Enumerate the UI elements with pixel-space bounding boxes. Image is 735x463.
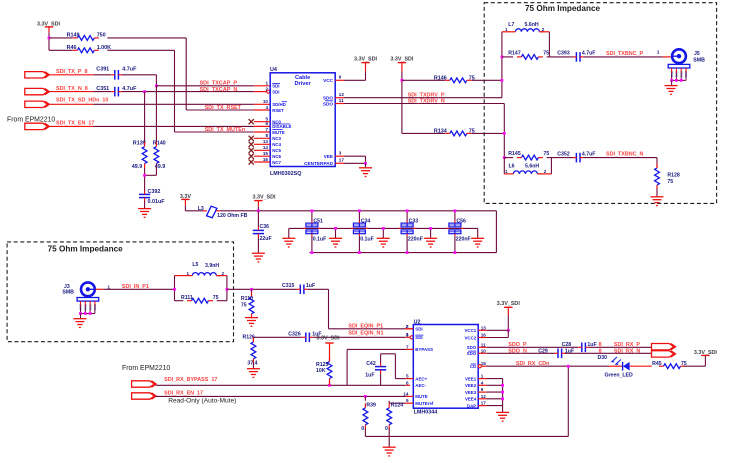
svg-text:SMB: SMB <box>693 57 705 63</box>
svg-text:4.7uF: 4.7uF <box>122 66 137 72</box>
svg-text:GND: GND <box>679 71 683 77</box>
svg-text:0: 0 <box>361 426 364 432</box>
svg-text:GND: GND <box>93 304 97 310</box>
svg-text:14: 14 <box>403 391 409 396</box>
svg-text:SDI_TX_MUTEn: SDI_TX_MUTEn <box>205 127 245 133</box>
svg-text:C315: C315 <box>282 283 295 289</box>
svg-text:9: 9 <box>339 74 342 79</box>
svg-text:LMH0344: LMH0344 <box>414 409 438 415</box>
svg-text:14: 14 <box>263 145 269 150</box>
svg-text:Green_LED: Green_LED <box>605 372 634 378</box>
svg-text:U2: U2 <box>414 319 421 325</box>
svg-text:VEE4: VEE4 <box>465 397 477 402</box>
svg-text:10: 10 <box>481 348 487 353</box>
svg-text:11: 11 <box>481 342 486 347</box>
svg-text:C56: C56 <box>456 219 466 225</box>
svg-text:3.3V_SDI: 3.3V_SDI <box>316 336 340 342</box>
svg-text:AEC-: AEC- <box>415 383 426 388</box>
svg-text:SDI_RX_N: SDI_RX_N <box>614 348 640 354</box>
svg-text:SDI_TX_P 8: SDI_TX_P 8 <box>56 69 87 75</box>
svg-text:BYPASS: BYPASS <box>415 347 433 352</box>
svg-text:8: 8 <box>599 348 602 354</box>
svg-text:3.3V_SDI: 3.3V_SDI <box>390 56 414 62</box>
svg-text:R39: R39 <box>366 402 376 408</box>
svg-text:SDI_EQIN_P1: SDI_EQIN_P1 <box>348 324 383 330</box>
svg-text:VEE2: VEE2 <box>465 383 477 388</box>
svg-text:12: 12 <box>481 394 487 399</box>
svg-text:0.1uF: 0.1uF <box>313 237 327 243</box>
svg-text:U4: U4 <box>270 67 277 73</box>
svg-text:R145: R145 <box>508 151 521 157</box>
svg-text:2: 2 <box>222 271 225 276</box>
svg-text:GND: GND <box>675 71 679 77</box>
svg-text:49.9: 49.9 <box>132 164 143 170</box>
svg-text:R46: R46 <box>67 45 77 51</box>
svg-text:RSET: RSET <box>272 108 284 113</box>
svg-text:R134: R134 <box>434 128 447 134</box>
svg-text:17: 17 <box>339 157 345 162</box>
svg-text:C36: C36 <box>260 224 270 230</box>
svg-text:7: 7 <box>265 127 268 132</box>
svg-text:1uF: 1uF <box>365 373 374 379</box>
svg-text:SDI_RX_EN 17: SDI_RX_EN 17 <box>164 390 203 396</box>
svg-text:8: 8 <box>265 133 268 138</box>
svg-text:2: 2 <box>542 27 545 32</box>
svg-text:13: 13 <box>481 325 487 330</box>
svg-text:16: 16 <box>481 333 487 338</box>
svg-text:MUTE: MUTE <box>272 130 285 135</box>
svg-text:VEE: VEE <box>324 154 333 159</box>
svg-text:D30: D30 <box>598 355 608 361</box>
svg-text:SDI: SDI <box>415 335 422 340</box>
svg-text:10K: 10K <box>316 368 326 374</box>
svg-text:4.7uF: 4.7uF <box>582 51 596 57</box>
svg-text:3.9nH: 3.9nH <box>205 263 219 269</box>
svg-text:5: 5 <box>406 374 409 379</box>
svg-text:SDI_RX_P: SDI_RX_P <box>614 342 640 348</box>
svg-text:120 Ohm FB: 120 Ohm FB <box>217 213 248 219</box>
svg-text:3.3V_SDI: 3.3V_SDI <box>354 56 378 62</box>
svg-text:VEE1: VEE1 <box>465 376 477 381</box>
svg-text:R147: R147 <box>508 51 521 57</box>
svg-text:SDI_TXCAP_N: SDI_TXCAP_N <box>200 87 238 93</box>
svg-text:CD: CD <box>470 364 476 369</box>
svg-text:SDI_TX_SD_HDn 10: SDI_TX_SD_HDn 10 <box>56 98 108 104</box>
svg-text:MUTE: MUTE <box>415 394 428 399</box>
svg-text:0: 0 <box>385 426 388 432</box>
svg-text:R110: R110 <box>241 296 253 302</box>
svg-text:NC7: NC7 <box>272 160 281 165</box>
svg-text:LMH0302SQ: LMH0302SQ <box>270 171 301 177</box>
svg-text:NC4: NC4 <box>272 142 281 147</box>
svg-text:1: 1 <box>265 81 268 86</box>
svg-text:22uF: 22uF <box>260 236 272 242</box>
svg-text:75 Ohm Impedance: 75 Ohm Impedance <box>48 245 124 254</box>
svg-text:C392: C392 <box>148 189 161 195</box>
svg-text:8: 8 <box>599 342 602 348</box>
svg-text:SDI_EQIN_N1: SDI_EQIN_N1 <box>348 331 383 337</box>
svg-text:1.00K: 1.00K <box>97 45 111 51</box>
svg-text:C352: C352 <box>557 151 570 157</box>
svg-text:75: 75 <box>213 295 219 301</box>
svg-text:9: 9 <box>406 398 409 403</box>
svg-text:220nF: 220nF <box>408 237 423 243</box>
svg-text:4: 4 <box>481 380 484 385</box>
svg-text:L7: L7 <box>508 22 514 28</box>
svg-text:17: 17 <box>481 401 487 406</box>
svg-text:VEE3: VEE3 <box>465 390 477 395</box>
svg-text:MUTEref: MUTEref <box>415 401 434 406</box>
svg-text:VCC2: VCC2 <box>464 335 476 340</box>
svg-text:6: 6 <box>406 380 409 385</box>
svg-text:1: 1 <box>505 27 508 32</box>
svg-text:NC3: NC3 <box>272 136 281 141</box>
svg-text:GND: GND <box>84 304 88 310</box>
svg-text:3.3V_SDI: 3.3V_SDI <box>252 194 276 200</box>
svg-text:4.7uF: 4.7uF <box>582 151 596 157</box>
svg-text:GND: GND <box>88 304 92 310</box>
svg-text:15: 15 <box>263 151 269 156</box>
svg-text:2: 2 <box>265 86 268 91</box>
svg-text:4: 4 <box>265 105 268 110</box>
svg-text:SDO: SDO <box>323 101 334 106</box>
svg-text:SDI_TX_EN 17: SDI_TX_EN 17 <box>56 121 94 127</box>
svg-text:16: 16 <box>263 157 269 162</box>
svg-text:SDI_IN_P1: SDI_IN_P1 <box>122 284 149 290</box>
svg-text:1: 1 <box>505 169 508 174</box>
svg-text:SDI_TX_N 8: SDI_TX_N 8 <box>56 86 88 92</box>
svg-text:R124: R124 <box>391 402 404 408</box>
svg-text:J5: J5 <box>694 51 700 57</box>
svg-text:C33: C33 <box>409 219 419 225</box>
svg-text:DAP: DAP <box>467 403 476 408</box>
svg-text:L6: L6 <box>509 163 515 169</box>
svg-text:3.3V_SDI: 3.3V_SDI <box>694 350 718 356</box>
svg-text:SDI: SDI <box>272 84 279 89</box>
svg-text:L3: L3 <box>198 206 204 212</box>
svg-text:75: 75 <box>241 302 247 308</box>
svg-text:SDI_TX_RSET: SDI_TX_RSET <box>205 105 242 111</box>
svg-text:1: 1 <box>481 374 484 379</box>
svg-text:1: 1 <box>657 50 660 56</box>
svg-text:C393: C393 <box>557 51 570 57</box>
svg-text:3: 3 <box>339 151 342 156</box>
svg-text:SDI_RX_BYPASS 17: SDI_RX_BYPASS 17 <box>164 377 217 383</box>
svg-text:R139: R139 <box>133 141 146 147</box>
svg-text:GND: GND <box>684 71 688 77</box>
svg-text:SDI_TXDRV_N: SDI_TXDRV_N <box>408 99 445 105</box>
svg-text:SD/HD: SD/HD <box>272 102 286 107</box>
svg-text:SDO_N: SDO_N <box>508 348 527 354</box>
svg-text:SDI: SDI <box>415 327 422 332</box>
svg-text:SDI_TXBNC_N: SDI_TXBNC_N <box>606 152 644 158</box>
svg-text:SDI: SDI <box>272 89 279 94</box>
svg-text:SDO: SDO <box>467 351 477 356</box>
svg-text:AEC+: AEC+ <box>415 376 427 381</box>
svg-text:75: 75 <box>469 128 475 134</box>
svg-text:From EPM2210: From EPM2210 <box>122 365 170 372</box>
svg-text:SDI_TXDRV_P: SDI_TXDRV_P <box>408 92 445 98</box>
svg-text:75: 75 <box>667 179 673 185</box>
svg-text:R140: R140 <box>153 141 166 147</box>
svg-text:SDI_TXBNC_P: SDI_TXBNC_P <box>606 51 644 57</box>
svg-text:13: 13 <box>263 139 269 144</box>
svg-text:5.6nH: 5.6nH <box>525 22 539 28</box>
svg-text:75: 75 <box>544 151 550 157</box>
svg-text:CENTERPAD: CENTERPAD <box>304 161 333 166</box>
svg-text:3: 3 <box>406 332 409 337</box>
svg-text:C391: C391 <box>96 66 109 72</box>
svg-text:0.1uF: 0.1uF <box>360 237 374 243</box>
svg-text:C34: C34 <box>361 219 371 225</box>
svg-text:L5: L5 <box>192 262 198 268</box>
svg-text:0.01uF: 0.01uF <box>148 199 166 205</box>
svg-text:1uF: 1uF <box>306 283 315 289</box>
svg-text:VCC1: VCC1 <box>464 328 476 333</box>
svg-text:750: 750 <box>97 32 106 38</box>
svg-text:SDO: SDO <box>323 96 334 101</box>
svg-text:C326: C326 <box>288 331 301 337</box>
svg-text:GND: GND <box>670 71 674 77</box>
svg-text:Read-Only (Auto-Mute): Read-Only (Auto-Mute) <box>168 398 236 405</box>
svg-text:SMB: SMB <box>62 290 74 296</box>
svg-text:37.4: 37.4 <box>247 360 257 366</box>
svg-text:SDI_RX_CDn: SDI_RX_CDn <box>516 361 550 367</box>
svg-text:75: 75 <box>469 75 475 81</box>
svg-text:R146: R146 <box>434 75 447 81</box>
svg-text:1: 1 <box>187 271 190 276</box>
svg-text:75 Ohm Impedance: 75 Ohm Impedance <box>525 4 601 13</box>
svg-text:VCC: VCC <box>323 78 334 83</box>
svg-text:SDI_TXCAP_P: SDI_TXCAP_P <box>200 80 238 86</box>
svg-text:SDO_P: SDO_P <box>508 342 527 348</box>
svg-text:3.3V_SDI: 3.3V_SDI <box>497 301 521 307</box>
svg-text:C351: C351 <box>96 86 109 92</box>
svg-text:2: 2 <box>406 324 409 329</box>
svg-text:C42: C42 <box>366 361 376 367</box>
svg-text:10: 10 <box>263 99 269 104</box>
svg-text:R149: R149 <box>67 32 80 38</box>
svg-text:11: 11 <box>339 98 344 103</box>
svg-text:DISABLE: DISABLE <box>272 124 291 129</box>
svg-text:220nF: 220nF <box>456 237 471 243</box>
svg-text:SDO: SDO <box>467 345 477 350</box>
svg-text:9: 9 <box>481 387 484 392</box>
svg-text:7: 7 <box>406 344 409 349</box>
svg-text:R125: R125 <box>316 362 329 368</box>
svg-text:R111: R111 <box>181 295 193 301</box>
svg-text:C29: C29 <box>538 348 548 354</box>
svg-text:2: 2 <box>544 169 547 174</box>
svg-text:12: 12 <box>339 92 345 97</box>
svg-text:R128: R128 <box>667 172 680 178</box>
svg-text:GND: GND <box>79 304 83 310</box>
svg-text:C28: C28 <box>562 342 572 348</box>
svg-text:NC5: NC5 <box>272 148 281 153</box>
svg-text:5.6nH: 5.6nH <box>525 163 539 169</box>
svg-text:NC6: NC6 <box>272 154 281 159</box>
svg-text:75: 75 <box>543 51 549 57</box>
svg-text:Driver: Driver <box>295 81 312 87</box>
svg-text:C51: C51 <box>313 219 323 225</box>
